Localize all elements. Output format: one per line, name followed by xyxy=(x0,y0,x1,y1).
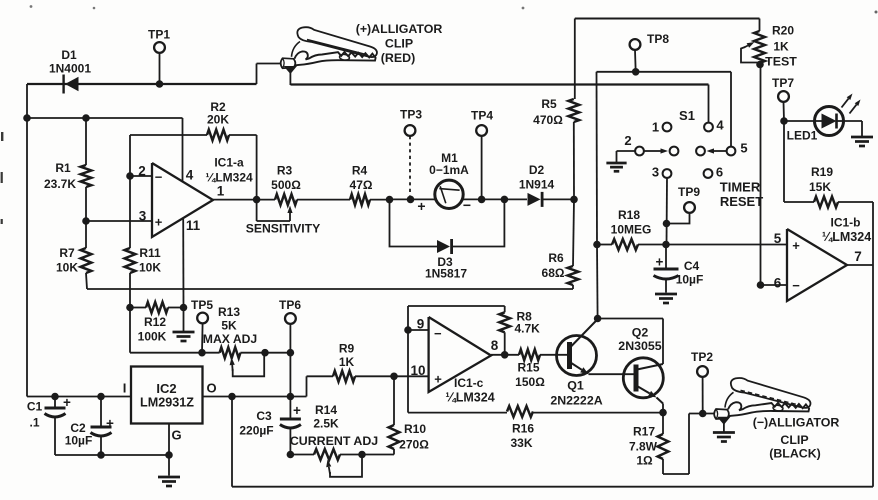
svg-text:3: 3 xyxy=(652,165,659,180)
label R11 xyxy=(139,246,161,260)
svg-text:10µF: 10µF xyxy=(676,273,704,287)
svg-text:C1: C1 xyxy=(27,400,43,414)
label pin 10 xyxy=(410,363,425,378)
label pin O xyxy=(206,381,216,396)
svg-text:I: I xyxy=(123,381,127,396)
resistor R5 xyxy=(568,19,579,200)
label pin G xyxy=(171,428,181,443)
svg-text:¼LM324: ¼LM324 xyxy=(205,171,253,185)
svg-text:220µF: 220µF xyxy=(239,424,273,438)
label TEST xyxy=(765,55,797,69)
svg-text:CLIP: CLIP xyxy=(385,37,413,51)
resistor R12 xyxy=(130,302,184,313)
test point TP9 xyxy=(663,202,695,227)
label R9 xyxy=(339,342,355,356)
diode D3 1N5817 xyxy=(437,239,452,254)
capacitor C3 xyxy=(280,397,301,459)
wire R2 feedback left xyxy=(130,135,207,176)
svg-text:CLIP: CLIP xyxy=(780,433,808,447)
svg-text:G: G xyxy=(171,428,181,443)
label plus IC1-c xyxy=(434,372,442,387)
svg-text:D1: D1 xyxy=(61,48,77,62)
label CLIP (red) xyxy=(385,37,413,51)
wire main V+ rail (battery + line, right part to S1 pin 4 drop) xyxy=(291,85,709,123)
resistor R2 xyxy=(207,130,229,141)
label pin 8 xyxy=(491,338,499,353)
svg-text:IC1-b: IC1-b xyxy=(831,216,861,230)
wire R3 to R4 xyxy=(297,199,350,201)
ground at C4 xyxy=(655,294,677,303)
meter M1 xyxy=(435,180,463,208)
svg-text:C4: C4 xyxy=(684,259,700,273)
node R12 left junction xyxy=(126,304,134,312)
svg-text:2N2222A: 2N2222A xyxy=(550,394,602,408)
label 220uF xyxy=(239,424,273,438)
op-amp IC1-b triangle xyxy=(787,229,847,301)
transistor Q1 2N2222A xyxy=(557,319,598,376)
resistor R8 xyxy=(499,306,510,355)
label IC1-c xyxy=(454,376,484,390)
wire IC1-c output xyxy=(491,351,519,359)
alligator clip (+) red xyxy=(281,27,377,85)
label 23.7K xyxy=(44,177,76,191)
label pin 9 xyxy=(417,317,425,332)
resistor R15 xyxy=(519,349,570,360)
svg-text:+: + xyxy=(434,372,442,387)
label 10MEG xyxy=(611,223,652,237)
wire R18 to IC1-b pin 5 xyxy=(666,244,787,246)
wire input to IC2 xyxy=(27,396,131,398)
svg-text:R19: R19 xyxy=(811,165,833,179)
LED LED1 xyxy=(815,107,844,136)
svg-text:1N4001: 1N4001 xyxy=(49,62,91,76)
svg-text:RESET: RESET xyxy=(720,194,763,209)
switch S1 pole b xyxy=(696,147,705,156)
svg-text:100K: 100K xyxy=(138,330,167,344)
label S1 pin 5 xyxy=(740,141,747,156)
label TP3 xyxy=(400,108,422,122)
svg-text:2: 2 xyxy=(138,164,146,179)
label R6 xyxy=(548,251,564,265)
svg-text:5: 5 xyxy=(740,141,747,156)
wire D3 loop xyxy=(390,199,505,246)
wire IC1-a pin 3 input xyxy=(82,217,152,225)
label TP7 xyxy=(772,76,794,90)
test point TP2 xyxy=(697,366,708,413)
label C1 plus xyxy=(63,395,71,410)
label 100K xyxy=(138,330,167,344)
svg-text:2: 2 xyxy=(624,133,631,148)
svg-text:7.8W: 7.8W xyxy=(629,440,658,454)
svg-text:23.7K: 23.7K xyxy=(44,177,76,191)
svg-text:470Ω: 470Ω xyxy=(533,113,563,127)
resistor R19 xyxy=(784,121,873,207)
label S1 pin 4 xyxy=(716,118,724,133)
node junction on left vertical xyxy=(23,114,31,122)
label TP5 xyxy=(191,298,213,312)
wire IC1-b pin 6 xyxy=(757,281,787,289)
svg-text:Q1: Q1 xyxy=(567,379,584,393)
wire IC2 output riser xyxy=(307,376,334,396)
label .1 xyxy=(29,416,39,430)
svg-text:10K: 10K xyxy=(139,261,161,275)
svg-text:R13: R13 xyxy=(218,305,240,319)
svg-text:TIMER: TIMER xyxy=(720,180,761,195)
switch S1 pin 5 xyxy=(727,147,736,156)
ground at black clip xyxy=(713,433,735,442)
label pin 3 xyxy=(139,209,147,224)
wire R20 to IC1-b pin 6 xyxy=(760,65,762,286)
label pin 6 (IC1-b) xyxy=(774,276,782,291)
wire D2 to R5/R6 node xyxy=(544,196,578,204)
svg-text:68Ω: 68Ω xyxy=(542,266,565,280)
label CLIP (black) xyxy=(780,433,808,447)
svg-text:9: 9 xyxy=(417,317,425,332)
svg-text:C3: C3 xyxy=(256,409,272,423)
label Q2 xyxy=(632,326,649,340)
svg-text:2.5K: 2.5K xyxy=(313,417,339,431)
wire R16 rail right xyxy=(533,409,667,417)
wire step up to red alligator clip xyxy=(257,64,282,85)
capacitor C4 xyxy=(654,245,679,293)
label 150ohm xyxy=(515,375,545,389)
label R5 xyxy=(541,97,557,111)
label C3 plus xyxy=(293,403,301,418)
test point TP5 xyxy=(197,313,208,357)
wire meter node to D2 xyxy=(390,196,528,204)
label TIMER xyxy=(720,180,761,195)
label 2N3055 xyxy=(618,339,662,353)
wire IC1-c pin 9 xyxy=(404,326,428,334)
svg-text:1K: 1K xyxy=(339,355,355,369)
label 10uF (C4) xyxy=(676,273,704,287)
wire R13 wiper loop xyxy=(230,349,269,376)
label R17 xyxy=(633,425,655,439)
wire S1 pin5 arrow xyxy=(707,148,727,153)
potentiometer R20 xyxy=(754,19,765,69)
label 1ohm xyxy=(636,454,653,468)
wire TP2 node xyxy=(689,410,715,418)
scan specks xyxy=(1,5,878,224)
wire Q1 emitter to Q2 base xyxy=(589,373,635,375)
label minus IC1-c xyxy=(434,326,442,341)
label SENSITIVITY xyxy=(246,222,321,236)
svg-text:5: 5 xyxy=(774,231,782,246)
wire R12 node to R13 line xyxy=(130,308,202,353)
label 270ohm xyxy=(399,438,429,452)
svg-text:R11: R11 xyxy=(139,246,161,260)
wire R14 wiper loop xyxy=(326,455,362,477)
potentiometer R13 xyxy=(202,347,265,358)
transistor Q2 2N3055 xyxy=(623,358,663,413)
svg-text:−: − xyxy=(155,170,163,185)
svg-text:TP5: TP5 xyxy=(191,298,213,312)
resistor R18 xyxy=(593,239,670,250)
label S1 pin 2 xyxy=(624,133,631,148)
label pin 7 (IC1-b) xyxy=(854,249,862,264)
resistor R1 xyxy=(81,118,92,221)
svg-text:8: 8 xyxy=(491,338,499,353)
switch S1 pin 1 xyxy=(663,123,672,132)
svg-text:TP4: TP4 xyxy=(471,109,493,123)
label LED1 xyxy=(787,129,818,143)
resistor R10 xyxy=(362,376,399,454)
svg-text:(−)ALLIGATOR: (−)ALLIGATOR xyxy=(753,416,840,430)
wire V+ sub-rail to IC1-a pin 4 xyxy=(27,118,183,181)
svg-text:6: 6 xyxy=(716,165,723,180)
svg-text:R4: R4 xyxy=(352,164,368,178)
label S1 pin 6 xyxy=(716,165,723,180)
label C3 xyxy=(256,409,272,423)
wire load rail vertical xyxy=(596,72,599,245)
label 15K xyxy=(809,180,831,194)
svg-text:1K: 1K xyxy=(773,40,789,54)
label IC2 xyxy=(156,381,176,396)
resistor R4 xyxy=(350,194,370,205)
op-amp IC1-c triangle xyxy=(429,317,491,392)
switch S1 pin 2 xyxy=(635,147,644,156)
label 1N5817 xyxy=(425,267,467,281)
label 33K xyxy=(510,436,532,450)
wire LED to ground xyxy=(844,121,863,136)
svg-text:+: + xyxy=(155,215,163,230)
resistor R6 xyxy=(568,199,579,289)
label TP4 xyxy=(471,109,493,123)
svg-text:LED1: LED1 xyxy=(787,129,818,143)
wire S1 pin3 down xyxy=(666,178,669,245)
svg-text:−: − xyxy=(434,326,442,341)
test point TP8 xyxy=(630,39,641,72)
switch S1 pin 6 xyxy=(704,169,713,178)
svg-text:TEST: TEST xyxy=(765,55,797,69)
svg-text:4.7K: 4.7K xyxy=(515,322,541,336)
label R14 xyxy=(315,403,337,417)
wire left edge vertical xyxy=(26,84,28,397)
svg-text:−: − xyxy=(792,278,800,293)
wire R20 wiper xyxy=(741,42,760,63)
resistor R17 xyxy=(658,413,689,474)
wire bottom rail xyxy=(232,397,873,487)
ground at IC2 xyxy=(158,424,180,487)
svg-text:TP3: TP3 xyxy=(400,108,422,122)
wire IC1-a pin 2 input xyxy=(126,172,152,180)
label 7.8W xyxy=(629,440,658,454)
svg-text:150Ω: 150Ω xyxy=(515,375,545,389)
svg-text:6: 6 xyxy=(774,276,782,291)
svg-text:IC1-a: IC1-a xyxy=(214,156,244,170)
resistor R7 xyxy=(81,221,92,289)
svg-text:10µF: 10µF xyxy=(65,434,93,448)
wire S1 pin2 to ground xyxy=(617,151,636,162)
svg-text:IC2: IC2 xyxy=(156,381,176,396)
diode D2 1N914 xyxy=(528,192,543,207)
label TP6 xyxy=(279,298,301,312)
wire TP8 rail xyxy=(597,68,732,76)
label D3 xyxy=(437,255,453,269)
svg-text:¼LM324: ¼LM324 xyxy=(822,230,871,244)
label pin 2 xyxy=(138,164,146,179)
regulator IC2 LM2931Z box xyxy=(131,367,203,424)
svg-text:+: + xyxy=(63,395,71,410)
label 0-1mA xyxy=(429,163,469,177)
label 1/4LM324 (a) xyxy=(205,171,253,185)
svg-text:−: − xyxy=(463,197,471,213)
svg-text:(+)ALLIGATOR: (+)ALLIGATOR xyxy=(356,22,443,36)
label IC1-a xyxy=(214,156,244,170)
label C4 xyxy=(684,259,700,273)
wire ground rail xyxy=(87,288,573,290)
label 4.7K xyxy=(515,322,541,336)
label R18 xyxy=(618,208,640,222)
svg-text:+: + xyxy=(417,198,425,214)
wire IC1-c feedback box xyxy=(408,306,505,413)
svg-text:D2: D2 xyxy=(529,163,545,177)
svg-text:10: 10 xyxy=(410,363,425,378)
svg-text:+: + xyxy=(656,255,664,270)
label TP2 xyxy=(691,350,713,364)
label R16 xyxy=(512,422,534,436)
svg-text:O: O xyxy=(206,381,216,396)
svg-text:(BLACK): (BLACK) xyxy=(769,447,821,461)
capacitor C1 xyxy=(45,397,66,456)
label plus IC1-b xyxy=(792,238,800,253)
svg-text:R6: R6 xyxy=(548,251,564,265)
wire collector junction xyxy=(594,245,663,365)
label 1K (R9) xyxy=(339,355,355,369)
label 10K (R11) xyxy=(139,261,161,275)
wire IC1-a pin 11 down xyxy=(182,219,184,308)
label MAX ADJ xyxy=(203,332,257,346)
svg-text:1: 1 xyxy=(652,120,659,135)
test point TP3 xyxy=(405,125,416,203)
svg-text:R1: R1 xyxy=(55,161,71,175)
svg-text:500Ω: 500Ω xyxy=(271,178,301,192)
svg-text:R14: R14 xyxy=(315,403,337,417)
label R13 xyxy=(218,305,240,319)
svg-text:0−1mA: 0−1mA xyxy=(429,163,469,177)
ground at R12 xyxy=(173,308,195,342)
label (-)ALLIGATOR xyxy=(753,416,840,430)
wire S1 pin5 drop xyxy=(730,72,732,146)
svg-text:5K: 5K xyxy=(221,319,237,333)
svg-text:1: 1 xyxy=(217,184,225,199)
label (BLACK) xyxy=(769,447,821,461)
label pin I xyxy=(123,381,127,396)
wire R4 to meter node xyxy=(370,196,393,204)
wire TP7 to LED xyxy=(784,120,815,122)
label S1 pin 1 xyxy=(652,120,659,135)
label R1 xyxy=(55,161,71,175)
wire R2 feedback right to output xyxy=(229,135,257,200)
label 1/4LM324 (b) xyxy=(822,230,871,244)
svg-text:4: 4 xyxy=(186,168,194,183)
svg-text:R10: R10 xyxy=(404,422,426,436)
label pin 4 xyxy=(186,168,194,183)
label IC1-b xyxy=(831,216,861,230)
svg-text:TP9: TP9 xyxy=(678,185,700,199)
label R3 xyxy=(277,164,293,178)
label C2 xyxy=(70,421,86,435)
svg-text:3: 3 xyxy=(139,209,147,224)
svg-text:¼LM324: ¼LM324 xyxy=(445,391,494,405)
node C2 junction xyxy=(97,393,105,401)
svg-text:10MEG: 10MEG xyxy=(611,223,652,237)
label S1 xyxy=(679,108,695,123)
test point TP7 xyxy=(778,91,789,125)
switch S1 pole a xyxy=(670,147,679,156)
label C2 plus xyxy=(106,416,114,431)
switch S1 pin 4 xyxy=(704,123,713,132)
svg-text:TP2: TP2 xyxy=(691,350,713,364)
svg-text:R20: R20 xyxy=(772,24,794,38)
test point TP6 xyxy=(285,313,296,396)
svg-text:7: 7 xyxy=(854,249,862,264)
label 68ohm xyxy=(542,266,565,280)
potentiometer R14 xyxy=(290,449,365,460)
label C4 plus xyxy=(656,255,664,270)
label R20 xyxy=(772,24,794,38)
label 10uF (C2) xyxy=(65,434,93,448)
svg-text:CURRENT ADJ: CURRENT ADJ xyxy=(290,434,378,448)
test point TP4 xyxy=(476,125,487,203)
resistor R11 xyxy=(125,176,136,308)
svg-text:R16: R16 xyxy=(512,422,534,436)
label plus IC1-a xyxy=(155,215,163,230)
test point TP1 xyxy=(154,42,165,88)
label S1 pin 3 xyxy=(652,165,659,180)
label R2 xyxy=(210,100,226,114)
node R1 top junction xyxy=(82,114,90,122)
svg-text:(RED): (RED) xyxy=(381,51,415,65)
svg-text:33K: 33K xyxy=(510,436,532,450)
svg-text:R17: R17 xyxy=(633,425,655,439)
label TP1 xyxy=(148,28,170,42)
svg-text:R5: R5 xyxy=(541,97,557,111)
wire IC2 output xyxy=(203,393,307,401)
label R7 xyxy=(59,246,75,260)
svg-text:TP6: TP6 xyxy=(279,298,301,312)
svg-text:TP7: TP7 xyxy=(772,76,794,90)
label (RED) xyxy=(381,51,415,65)
label R15 xyxy=(517,361,539,375)
label R12 xyxy=(144,315,166,329)
alligator clip (-) black xyxy=(714,378,810,431)
svg-text:1Ω: 1Ω xyxy=(636,454,653,468)
label 47ohm xyxy=(350,178,373,192)
wire right edge vertical xyxy=(872,202,874,487)
svg-text:2N3055: 2N3055 xyxy=(618,339,662,353)
label 1N4001 xyxy=(49,62,91,76)
svg-text:10K: 10K xyxy=(56,261,78,275)
op-amp IC1-a triangle xyxy=(152,163,213,237)
label pin 11 xyxy=(186,218,201,233)
ground at LED xyxy=(851,137,873,146)
label RESET xyxy=(720,194,763,209)
svg-text:Q2: Q2 xyxy=(632,326,649,340)
label M1 xyxy=(441,151,458,165)
label 1/4LM324 (c) xyxy=(445,391,494,405)
svg-text:TP1: TP1 xyxy=(148,28,170,42)
switch S1 pin 3 xyxy=(663,169,672,178)
LED1 emission arrows xyxy=(842,94,861,114)
svg-text:MAX ADJ: MAX ADJ xyxy=(203,332,257,346)
svg-text:+: + xyxy=(293,403,301,418)
label pin 1 xyxy=(217,184,225,199)
svg-text:TP8: TP8 xyxy=(647,32,669,46)
svg-text:R9: R9 xyxy=(339,342,355,356)
label LM2931Z xyxy=(140,396,194,410)
wire top rail xyxy=(575,17,760,19)
